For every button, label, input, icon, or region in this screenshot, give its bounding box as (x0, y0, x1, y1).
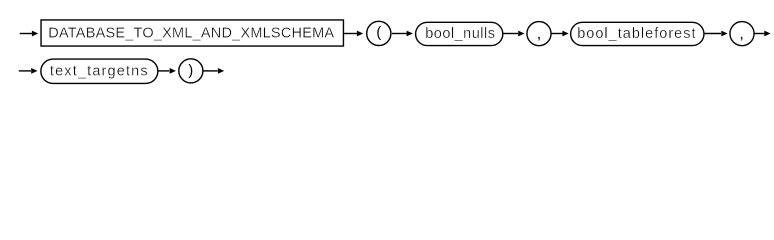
svg-text:): ) (188, 63, 193, 79)
wire bool_nulls to , (504, 33, 519, 35)
wire ( to bool_nulls (392, 33, 407, 35)
svg-text:bool_nulls: bool_nulls (425, 26, 495, 42)
svg-text:,: , (739, 26, 743, 43)
oval bool_tableforest (571, 22, 704, 45)
wire text_targetns to ) (159, 70, 170, 72)
arrowhead into bool_nulls (407, 31, 413, 37)
arrowhead row2 end (218, 68, 224, 74)
wire , to bool_tableforest (552, 33, 563, 35)
arrowhead row1 end (764, 31, 770, 37)
oval text_targetns (41, 59, 158, 83)
arrowhead into DATABASE_TO_XML_AND_XMLSCHEMA box (32, 31, 38, 37)
arrowhead into second , (721, 31, 727, 37)
wire row1 end (755, 33, 765, 35)
wire row1 start (20, 33, 32, 35)
arrowhead into text_targetns (31, 68, 37, 74)
svg-text:DATABASE_TO_XML_AND_XMLSCHEMA: DATABASE_TO_XML_AND_XMLSCHEMA (48, 25, 334, 41)
arrowhead into bool_tableforest (562, 31, 568, 37)
arrowhead into , (518, 31, 524, 37)
circle terminal ) (179, 59, 203, 83)
svg-text:bool_tableforest: bool_tableforest (577, 26, 696, 42)
wire row2 end (204, 70, 218, 72)
circle terminal ( (367, 21, 391, 45)
circle terminal , first (527, 22, 551, 46)
arrowhead into ) (170, 68, 176, 74)
oval bool_nulls (416, 22, 503, 45)
keyword box DATABASE_TO_XML_AND_XMLSCHEMA (41, 20, 343, 46)
circle terminal , second (730, 22, 754, 46)
svg-text:,: , (537, 26, 541, 43)
svg-text:(: ( (376, 25, 381, 41)
wire box to ( (344, 33, 357, 35)
wire row2 start (19, 70, 31, 72)
wire bool_tableforest to , (705, 33, 721, 35)
arrowhead into ( (357, 31, 363, 37)
svg-text:text_targetns: text_targetns (50, 63, 149, 79)
